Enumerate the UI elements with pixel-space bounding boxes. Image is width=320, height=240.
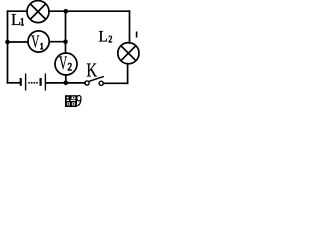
svg-text:V: V [59, 53, 68, 74]
label L2 [98, 29, 112, 46]
voltmeter V2 [55, 53, 77, 75]
node junction top [64, 9, 69, 14]
switch K [85, 76, 104, 85]
wire right vertical bottom [127, 64, 129, 84]
lamp L1 [27, 1, 49, 23]
wire right vertical top [129, 11, 131, 43]
switch terminal left [85, 81, 89, 85]
caption figure glyph [65, 95, 81, 107]
wire switch to right corner [103, 82, 127, 84]
voltmeter V1 [28, 31, 49, 52]
wire bottom-left horizontal [8, 82, 20, 84]
node junction bottom [64, 81, 69, 86]
wire top-left horizontal [8, 10, 27, 12]
wire V1 left [8, 41, 29, 43]
switch lever [89, 76, 104, 81]
battery dotted middle [28, 82, 38, 84]
wire V1 right [49, 41, 65, 43]
node junction middle [63, 39, 68, 44]
wire V2 bottom stub [65, 75, 67, 83]
wire battery to switch [46, 82, 85, 84]
wire top-middle horizontal [49, 10, 129, 12]
svg-text:V: V [31, 33, 39, 52]
label L1 [11, 10, 24, 29]
caption number 9 [77, 96, 81, 101]
battery plate long 2 [45, 74, 46, 91]
svg-text:L: L [11, 10, 21, 29]
switch terminal right [99, 81, 103, 85]
stray mark [136, 32, 138, 38]
node junction left [5, 40, 10, 45]
battery plate long 1 [25, 74, 26, 91]
battery plate short 1 [20, 78, 22, 86]
svg-text:L: L [98, 29, 108, 46]
svg-text:K: K [86, 58, 97, 81]
lamp L2 [118, 43, 139, 64]
battery plate short 2 [40, 78, 42, 86]
wire middle vertical [65, 11, 67, 53]
wire left vertical [7, 11, 9, 83]
battery B [20, 74, 46, 91]
